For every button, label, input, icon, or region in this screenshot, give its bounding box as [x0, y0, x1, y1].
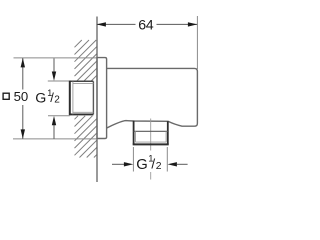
outlet centre line [150, 119, 152, 151]
G1/2 lower arrow pointing up [53, 125, 55, 139]
outlet thread root bottom [136, 141, 167, 143]
square symbol [3, 93, 9, 99]
svg-text:64: 64 [138, 17, 153, 33]
wall hatching [75, 40, 98, 158]
inlet nipple bottom edge [70, 113, 94, 115]
arrow down of 50 [21, 129, 25, 138]
bottom extension line of 50 dim [13, 138, 97, 140]
G1/2 upper arrow pointing down [53, 58, 55, 72]
outlet thread root left [135, 131, 137, 142]
inlet nipple thread root bottom [73, 111, 94, 113]
outlet thread root right [165, 131, 167, 142]
arrow left of 64 [97, 22, 106, 26]
svg-text:G: G [35, 91, 46, 107]
svg-text:2: 2 [54, 95, 60, 106]
flange (escutcheon) [97, 58, 107, 139]
inlet nipple right end [92, 81, 94, 114]
svg-text:G: G [136, 157, 148, 173]
bottom dim right arrow and shaft [168, 162, 177, 166]
arrow right of 64 [188, 22, 197, 26]
top extension line of 50 dim [14, 57, 98, 59]
G1/2 lower extension line (nipple bottom) [48, 115, 70, 117]
G1/2 upper extension line (nipple top) [48, 80, 70, 82]
svg-text:50: 50 [14, 89, 29, 104]
outlet left edge [133, 121, 135, 145]
arrow up of 50 [21, 58, 25, 67]
outlet right edge [167, 121, 169, 144]
inlet nipple chamfer line [72, 82, 74, 115]
svg-text:2: 2 [156, 161, 162, 172]
inlet nipple behind wall: top edge [70, 80, 94, 82]
inlet nipple thread root top [73, 82, 94, 84]
dimension 50 vertical line [22, 58, 24, 139]
inlet nipple left end [69, 81, 71, 116]
right extension line of 64 dim [196, 16, 198, 69]
wall surface line (also left extension of 64 dim) [96, 17, 98, 183]
dimension 64 line [97, 23, 198, 25]
outlet thread start line [134, 130, 168, 132]
bottom dim left extension line [132, 147, 134, 172]
outlet bottom edge [133, 143, 169, 145]
bottom dim left shaft and arrow [112, 163, 124, 165]
body outline [107, 68, 198, 128]
bottom dim right extension line [166, 147, 168, 172]
